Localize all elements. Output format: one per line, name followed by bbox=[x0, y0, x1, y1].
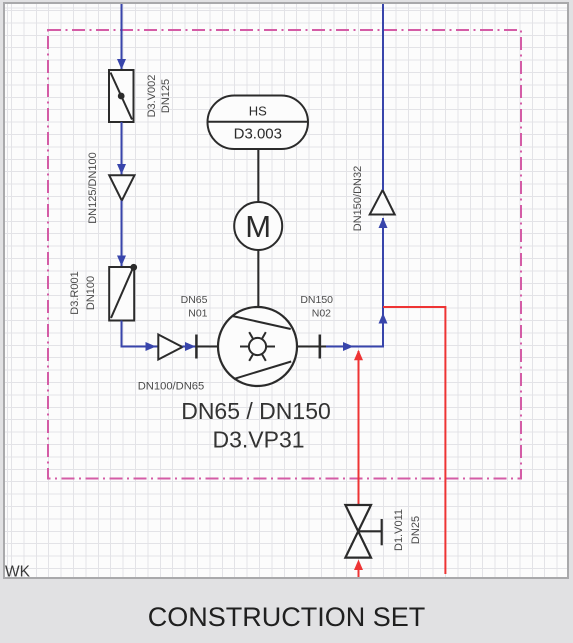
wire: elbow to horizontal run bbox=[122, 321, 159, 352]
wire: red riser from valve bbox=[354, 350, 363, 505]
label WK bbox=[5, 564, 31, 581]
svg-text:DN150/DN32: DN150/DN32 bbox=[352, 166, 364, 231]
label DN150 N02 bbox=[300, 294, 333, 320]
label DN100/DN65 bbox=[138, 381, 205, 393]
svg-text:D3.R001: D3.R001 bbox=[69, 271, 81, 314]
wire: motor shaft bbox=[257, 250, 259, 307]
reducer DN125/DN100 bbox=[109, 175, 134, 200]
label DN65 N01 bbox=[181, 294, 208, 320]
wire bbox=[182, 342, 196, 351]
label D3.R001 bbox=[69, 271, 81, 314]
label DN125/DN100 bbox=[87, 152, 99, 224]
label DN25 bbox=[410, 516, 422, 544]
svg-text:HS: HS bbox=[249, 104, 267, 119]
wire: blue inlet line from top bbox=[117, 4, 126, 70]
svg-text:DN100/DN65: DN100/DN65 bbox=[138, 381, 205, 393]
svg-text:DN125: DN125 bbox=[160, 79, 172, 113]
wire: red stub below valve bbox=[354, 560, 363, 578]
label D3.VP31 bbox=[212, 427, 304, 453]
wire: riser to top bbox=[382, 4, 384, 190]
label D3.V002 bbox=[146, 75, 158, 118]
reducer DN100/DN65 bbox=[158, 335, 182, 360]
valve D3.R001 bbox=[109, 264, 137, 321]
wire: discharge nozzle bbox=[296, 346, 326, 348]
label D1.V011 bbox=[393, 509, 405, 551]
flange N01 bbox=[195, 335, 198, 359]
valve D1.V011 bbox=[345, 505, 381, 558]
svg-text:N02: N02 bbox=[312, 308, 331, 320]
check valve DN150/DN32 bbox=[370, 190, 395, 215]
label DN100 bbox=[85, 276, 97, 310]
svg-text:DN65: DN65 bbox=[181, 294, 208, 306]
motor M bbox=[234, 202, 282, 250]
flange N02 bbox=[319, 335, 322, 359]
svg-text:N01: N01 bbox=[188, 308, 207, 320]
svg-text:D3.VP31: D3.VP31 bbox=[212, 427, 304, 453]
wire: suction nozzle bbox=[196, 346, 219, 348]
svg-text:M: M bbox=[245, 209, 271, 244]
wire bbox=[117, 201, 126, 267]
svg-text:DN65 / DN150: DN65 / DN150 bbox=[181, 398, 331, 424]
label DN150/DN32 bbox=[352, 166, 364, 231]
svg-text:DN25: DN25 bbox=[410, 516, 422, 544]
svg-text:D3.003: D3.003 bbox=[234, 126, 282, 143]
svg-text:DN150: DN150 bbox=[300, 294, 333, 306]
svg-text:DN100: DN100 bbox=[85, 276, 97, 310]
label DN65 / DN150 bbox=[181, 398, 331, 424]
wire: signal line bbox=[257, 149, 259, 202]
wire bbox=[117, 122, 126, 175]
label DN125 bbox=[160, 79, 172, 113]
svg-text:WK: WK bbox=[5, 564, 31, 581]
svg-text:D3.V002: D3.V002 bbox=[146, 75, 158, 118]
caption CONSTRUCTION SET bbox=[0, 602, 573, 633]
pump D3.VP31 bbox=[218, 307, 297, 386]
valve D3.V002 bbox=[109, 70, 134, 122]
wire: red branch to right drop bbox=[383, 307, 445, 574]
wire: blue run to riser bbox=[326, 218, 388, 352]
svg-text:D1.V011: D1.V011 bbox=[393, 509, 405, 551]
svg-text:DN125/DN100: DN125/DN100 bbox=[87, 152, 99, 224]
instrument HS D3.003 bbox=[208, 96, 309, 150]
boundary dashed magenta bbox=[48, 30, 521, 479]
